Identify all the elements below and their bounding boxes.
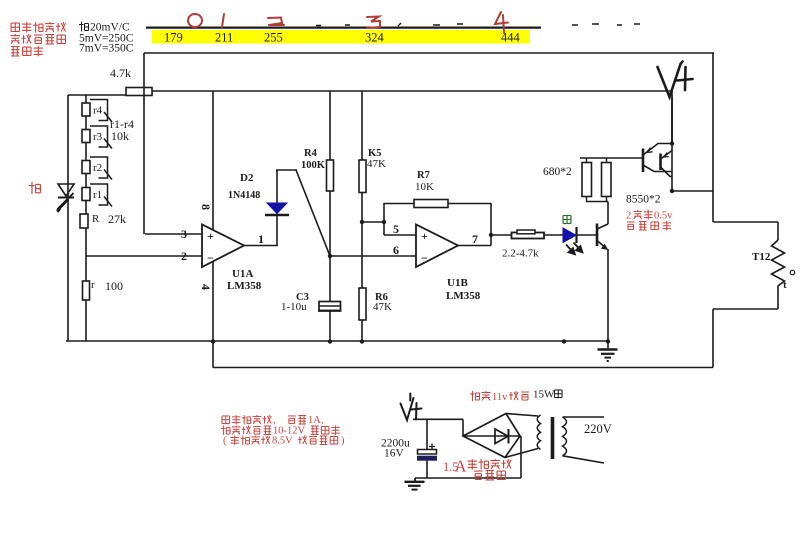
svg-text:10k: 10k xyxy=(111,129,129,143)
svg-text:2: 2 xyxy=(181,249,187,263)
svg-text:4.7k: 4.7k xyxy=(110,66,131,80)
svg-text:324: 324 xyxy=(365,31,385,45)
svg-text:8: 8 xyxy=(199,204,213,210)
svg-text:2.2-4.7k: 2.2-4.7k xyxy=(502,248,539,260)
svg-text:2: 2 xyxy=(626,211,631,222)
svg-text:r2: r2 xyxy=(93,162,102,174)
svg-text:): ) xyxy=(341,436,345,447)
svg-text:r4: r4 xyxy=(93,105,103,117)
svg-text:15W: 15W xyxy=(533,389,555,401)
svg-text:r3: r3 xyxy=(93,131,103,143)
svg-text:220V: 220V xyxy=(584,422,612,436)
svg-text:−: − xyxy=(207,251,214,265)
svg-text:3: 3 xyxy=(181,227,187,241)
svg-text:t: t xyxy=(783,279,787,291)
svg-text:(: ( xyxy=(223,436,227,447)
svg-text:1N4148: 1N4148 xyxy=(228,190,260,201)
svg-text:U1B: U1B xyxy=(447,277,468,289)
svg-text:47K: 47K xyxy=(373,301,392,313)
svg-text:LM358: LM358 xyxy=(227,280,262,292)
svg-text:+: + xyxy=(207,229,214,243)
svg-text:LM358: LM358 xyxy=(446,290,481,302)
svg-text:0.5v: 0.5v xyxy=(654,211,673,222)
svg-text:100K: 100K xyxy=(301,160,326,171)
svg-text:680*2: 680*2 xyxy=(543,166,572,178)
svg-text:A: A xyxy=(455,457,467,476)
svg-text:6: 6 xyxy=(393,243,399,257)
svg-text:7mV=350C: 7mV=350C xyxy=(79,43,134,55)
svg-text:D2: D2 xyxy=(240,172,254,184)
svg-text:255: 255 xyxy=(264,31,283,45)
svg-text:5: 5 xyxy=(393,222,399,236)
svg-text:1-10u: 1-10u xyxy=(281,301,307,313)
svg-text:211: 211 xyxy=(215,31,233,45)
svg-text:7: 7 xyxy=(472,232,478,246)
svg-text:R4: R4 xyxy=(304,148,318,159)
svg-text:179: 179 xyxy=(164,31,183,45)
svg-text:+: + xyxy=(421,229,428,243)
svg-text:,: , xyxy=(273,415,276,426)
svg-text:R: R xyxy=(92,213,100,225)
svg-text:T12: T12 xyxy=(752,251,771,263)
svg-text:1: 1 xyxy=(258,232,264,246)
svg-text:r: r xyxy=(91,279,95,291)
svg-text:4: 4 xyxy=(199,284,213,290)
svg-text:27k: 27k xyxy=(108,212,126,226)
svg-text:100: 100 xyxy=(105,279,123,293)
svg-text:10K: 10K xyxy=(415,181,434,193)
svg-text:16V: 16V xyxy=(384,448,405,460)
svg-text:11v: 11v xyxy=(492,392,508,403)
svg-text:1A,: 1A, xyxy=(308,415,323,426)
svg-text:r1: r1 xyxy=(93,189,102,201)
svg-text:R7: R7 xyxy=(417,170,430,181)
svg-text:8550*2: 8550*2 xyxy=(626,194,661,206)
svg-text:47K: 47K xyxy=(367,158,386,170)
svg-text:U1A: U1A xyxy=(232,268,253,280)
svg-text:8.5V: 8.5V xyxy=(272,436,293,447)
svg-text:−: − xyxy=(421,251,428,265)
